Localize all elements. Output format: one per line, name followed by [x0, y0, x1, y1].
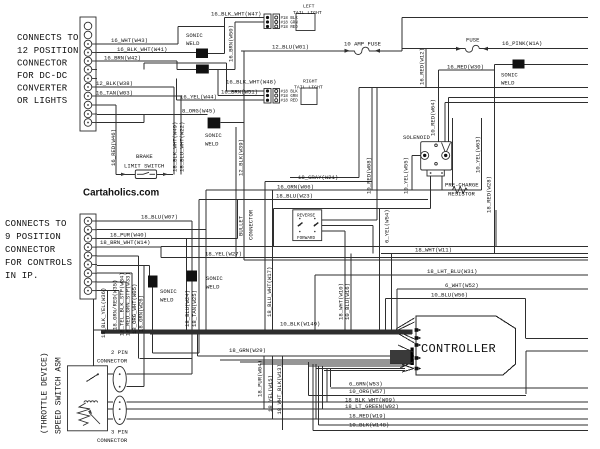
wire ctrl right drop: [525, 351, 527, 394]
wire m4: [260, 363, 414, 365]
svg-text:FORWARD: FORWARD: [297, 236, 315, 241]
svg-text:SONIC: SONIC: [206, 275, 223, 282]
wire W45: [97, 114, 208, 116]
wire brake left: [116, 173, 135, 175]
wire W51 riser: [217, 70, 219, 96]
svg-text:LIMIT SWITCH: LIMIT SWITCH: [124, 163, 164, 170]
forward-reverse switch: [293, 210, 322, 241]
wire W48 step: [143, 63, 145, 70]
svg-text:CONNECTOR: CONNECTOR: [248, 209, 255, 240]
wire W54 drop: [379, 209, 381, 331]
wire stub 496: [495, 210, 497, 247]
wire W07: [97, 220, 192, 222]
controller: [416, 316, 516, 375]
svg-text:CONVERTER: CONVERTER: [17, 84, 68, 94]
potentiometer: [78, 401, 101, 426]
svg-text:6_WHT(W52): 6_WHT(W52): [445, 282, 479, 289]
svg-text:16_BLK_WHT(W41): 16_BLK_WHT(W41): [117, 46, 167, 53]
svg-text:18_GRN(W29): 18_GRN(W29): [229, 347, 266, 354]
wire W31 drop: [314, 275, 316, 331]
svg-text:18_WHT_BLK(W13): 18_WHT_BLK(W13): [276, 364, 283, 414]
wire precharge right: [481, 118, 483, 190]
wire W30: [439, 69, 495, 71]
svg-text:16_GRN(W06): 16_GRN(W06): [277, 184, 314, 191]
wire W12 riser: [401, 18, 403, 51]
wire W52 corner: [396, 289, 398, 330]
svg-text:10_YEL(W63): 10_YEL(W63): [475, 136, 482, 173]
wire 273 drop: [273, 209, 275, 247]
pre-charge resistor: [452, 187, 467, 194]
wire pin8 stub: [97, 281, 126, 283]
svg-text:16_BLK_WHT(W47): 16_BLK_WHT(W47): [211, 11, 261, 18]
wire fuse1 left: [241, 50, 355, 52]
svg-text:TAIL LIGHT: TAIL LIGHT: [293, 10, 322, 16]
wire pot2: [88, 408, 113, 410]
svg-text:WELD: WELD: [186, 40, 200, 47]
wire weld2 out: [209, 69, 235, 71]
wire funnel a: [447, 98, 449, 143]
svg-text:CONNECTOR: CONNECTOR: [17, 59, 68, 69]
wire solenoid strip: [274, 208, 431, 210]
svg-text:10_BLK(W149): 10_BLK(W149): [280, 321, 320, 328]
svg-text:(THROTTLE DEVICE): (THROTTLE DEVICE): [41, 352, 50, 434]
wire W39 bus: [244, 259, 588, 261]
wire W46 drop: [115, 105, 117, 174]
wire m7: [324, 370, 405, 372]
svg-text:#18 RED: #18 RED: [281, 100, 299, 104]
solenoid: [421, 142, 452, 170]
wire bot b: [312, 364, 314, 431]
svg-text:18_BRN_WHT(W14): 18_BRN_WHT(W14): [100, 239, 150, 246]
svg-text:16_TAN(W03): 16_TAN(W03): [96, 90, 133, 97]
svg-text:CONNECTOR: CONNECTOR: [97, 358, 128, 365]
svg-text:18_GRAY(W21): 18_GRAY(W21): [298, 174, 338, 181]
2 pin connector oval: [113, 366, 126, 392]
svg-text:18_BLU_WHT(W22): 18_BLU_WHT(W22): [179, 122, 186, 172]
wire sw2 drop: [372, 225, 374, 253]
wire W11: [381, 252, 588, 254]
wire weld1 riser: [224, 18, 226, 54]
svg-text:3 PIN: 3 PIN: [111, 429, 128, 436]
wire 9p drop c: [125, 282, 127, 331]
wire fuse2 right W1A: [479, 48, 588, 50]
wire precharge left: [451, 118, 453, 186]
wire 2pin dot2: [126, 386, 144, 388]
svg-text:18_PUR(W04): 18_PUR(W04): [257, 360, 264, 397]
wire strip drop2: [441, 176, 443, 190]
wire bot f: [326, 368, 328, 402]
svg-text:#18 GRN: #18 GRN: [281, 95, 299, 99]
svg-text:18_BLK_WHT(W49): 18_BLK_WHT(W49): [172, 122, 179, 172]
wire solenoid B right: [448, 97, 588, 99]
wire W31: [315, 274, 588, 276]
wire weldB out1: [186, 238, 188, 331]
wire W21b: [290, 176, 359, 178]
wire W38: [97, 86, 174, 88]
wire weldB top: [191, 221, 193, 271]
wire W23: [199, 199, 428, 201]
svg-text:SPEED SWITCH ASM: SPEED SWITCH ASM: [55, 357, 64, 434]
wire W17 drop: [272, 190, 274, 331]
wire W03: [97, 95, 181, 97]
svg-text:6_YEL(W54): 6_YEL(W54): [384, 209, 391, 243]
wire band4: [150, 333, 412, 335]
wire weldB out2: [191, 282, 193, 375]
wire W42 step: [176, 61, 178, 70]
wire 9p drop a: [107, 291, 109, 331]
wire W52: [397, 288, 588, 290]
svg-text:SOLENOID: SOLENOID: [403, 134, 430, 141]
wire W13 drop: [282, 356, 284, 430]
wire solenoid B right2: [445, 101, 588, 103]
sonic weld 1: [196, 49, 208, 59]
wire fuse2 left: [402, 48, 466, 50]
wire m2: [220, 359, 414, 361]
svg-text:WELD: WELD: [206, 284, 220, 291]
wire W148: [313, 430, 588, 432]
wire solenoid coil left: [412, 154, 425, 156]
wire W56: [385, 298, 525, 300]
svg-text:18_RED(W28): 18_RED(W28): [486, 176, 493, 213]
svg-text:8_ORG(W45): 8_ORG(W45): [182, 108, 216, 115]
sonic weld 4: [513, 60, 525, 69]
svg-text:18_TAN(W25): 18_TAN(W25): [191, 290, 198, 327]
svg-text:WELD: WELD: [501, 80, 515, 87]
svg-text:16_WHT(W43): 16_WHT(W43): [111, 37, 148, 44]
wire W48 seg2: [227, 90, 265, 92]
connector J2 9-position: [80, 214, 97, 299]
wire W19: [126, 418, 588, 420]
wire 9p switch drop: [92, 299, 94, 374]
wire W12 top: [402, 17, 588, 19]
wire W42 seg1: [97, 60, 177, 62]
wire bus 246: [161, 246, 588, 248]
wire W52 mid drop: [390, 253, 392, 331]
svg-text:18_BLK_YEL(W36): 18_BLK_YEL(W36): [100, 288, 107, 338]
svg-text:FUSE: FUSE: [466, 37, 480, 44]
wire W53: [331, 387, 588, 389]
wire W22 drop: [180, 96, 182, 174]
wire ctrl right2: [526, 350, 588, 352]
wire bot e: [322, 366, 324, 409]
wire pin9 stub: [97, 290, 119, 292]
wire W56 left drop: [384, 299, 386, 335]
wire W12 mid: [359, 87, 588, 89]
svg-text:10_ORG(W57): 10_ORG(W57): [349, 388, 386, 395]
svg-text:10_BLU(W16): 10_BLU(W16): [344, 283, 351, 320]
svg-text:18_YEL(W27): 18_YEL(W27): [205, 251, 242, 258]
svg-text:CONNECTOR: CONNECTOR: [97, 437, 128, 444]
wire W51: [218, 95, 264, 97]
svg-text:CONNECTS TO: CONNECTS TO: [17, 33, 79, 43]
svg-text:IN IP.: IN IP.: [5, 271, 39, 281]
wire band core (merged harness): [101, 330, 412, 334]
wire brake right: [157, 173, 173, 175]
wire bus424: [319, 424, 589, 426]
wire W49 drop: [173, 87, 175, 174]
wire bot a: [308, 362, 310, 396]
wire m5: [308, 365, 405, 367]
svg-text:16_BRN(W42): 16_BRN(W42): [104, 55, 141, 62]
wire 351 drop: [350, 253, 352, 331]
svg-text:CONTROLLER: CONTROLLER: [421, 342, 496, 356]
right tail light connector: [264, 89, 280, 104]
wire W48 seg1: [144, 62, 227, 64]
wire weld3 out: [220, 122, 244, 124]
wire W29 riser: [196, 331, 198, 356]
svg-text:18_LT_GREEN(W02): 18_LT_GREEN(W02): [345, 403, 399, 410]
wire W43 seg2: [178, 26, 225, 28]
svg-text:18_WHT(W11): 18_WHT(W11): [415, 247, 452, 254]
svg-text:10_RED(W08): 10_RED(W08): [366, 157, 373, 194]
wire W40: [97, 229, 206, 231]
wire W12 drop: [425, 49, 427, 88]
wire fuse1 mid: [369, 50, 402, 52]
wire W42 seg2: [177, 69, 196, 71]
fuse F1 10 amp: [345, 47, 381, 54]
wire W47 to tail dot1: [225, 17, 265, 19]
wire band1: [94, 329, 412, 331]
wire W21: [265, 181, 372, 183]
svg-text:CONNECTOR: CONNECTOR: [5, 245, 56, 255]
wire bot c: [315, 364, 317, 419]
wire 265 drop: [264, 182, 266, 332]
svg-text:RIGHT: RIGHT: [303, 79, 318, 85]
wire weld4 left: [495, 63, 513, 65]
wire pin12: [97, 122, 144, 124]
3 pin connector oval: [113, 396, 126, 424]
wire W29: [197, 355, 414, 357]
wire W14: [97, 237, 238, 239]
wire m1: [139, 357, 191, 359]
wire pin12 step: [143, 115, 145, 123]
svg-text:10_BLK(W148): 10_BLK(W148): [349, 422, 389, 429]
wire bot d: [318, 366, 320, 425]
fuse F2: [456, 45, 488, 52]
svg-text:WELD: WELD: [160, 297, 174, 304]
wire weld3 drop: [235, 127, 237, 258]
wire W01 riser: [243, 51, 245, 260]
wire W56 drop: [525, 299, 527, 339]
wire W09: [126, 401, 588, 403]
svg-text:#18 BLK: #18 BLK: [281, 17, 299, 21]
svg-text:18_PUR(W40): 18_PUR(W40): [110, 232, 147, 239]
sonic weld B: [187, 271, 198, 282]
left tail light: [296, 14, 315, 31]
wire W28 drop: [494, 64, 496, 253]
svg-text:BULLET: BULLET: [238, 215, 245, 236]
wire weldA out: [152, 288, 154, 354]
wire W50 riser: [234, 22, 236, 70]
wire fwd-rev 1: [322, 219, 377, 221]
wire weldA in: [97, 265, 149, 267]
wire pot1: [96, 401, 113, 403]
svg-text:2 PIN: 2 PIN: [111, 349, 128, 356]
svg-text:16_RED(W12): 16_RED(W12): [419, 48, 426, 85]
svg-text:10_YEL(W55): 10_YEL(W55): [403, 157, 410, 194]
wire pot3: [88, 418, 113, 420]
wire strip drop1: [430, 176, 432, 209]
svg-text:#18 RED: #18 RED: [281, 26, 299, 30]
wire W44 riser: [175, 79, 177, 101]
svg-text:WELD: WELD: [205, 141, 219, 148]
wire W27: [161, 257, 588, 259]
svg-text:16_BRN(W50): 16_BRN(W50): [228, 25, 235, 62]
wire band3: [122, 332, 412, 334]
svg-text:10_RED(W64): 10_RED(W64): [430, 99, 437, 136]
wire ctrl right1: [526, 338, 588, 340]
wire W64 drop: [438, 70, 440, 142]
svg-text:16_PINK(W1A): 16_PINK(W1A): [502, 40, 542, 47]
svg-text:16_RED(W46): 16_RED(W46): [110, 129, 117, 166]
wire weld4 right: [525, 63, 589, 65]
svg-text:18_BLU_WHT(W17): 18_BLU_WHT(W17): [266, 267, 273, 317]
wire m6: [316, 367, 405, 369]
svg-text:18_GRN(W26): 18_GRN(W26): [138, 295, 145, 332]
wire W02: [126, 408, 588, 410]
svg-text:18_BLU(W23): 18_BLU(W23): [276, 193, 313, 200]
speed switch lever: [87, 373, 100, 381]
svg-text:12 POSITION: 12 POSITION: [17, 46, 79, 56]
svg-text:Cartaholics.com: Cartaholics.com: [83, 188, 160, 199]
svg-text:16_YEL(W44): 16_YEL(W44): [180, 94, 217, 101]
svg-text:16_BRN(W51): 16_BRN(W51): [221, 89, 258, 96]
svg-text:SONIC: SONIC: [205, 132, 222, 139]
left tail light connector: [264, 14, 280, 29]
svg-text:TAIL LIGHT: TAIL LIGHT: [294, 85, 323, 91]
wire pin5 stub: [97, 255, 138, 257]
wire W57: [309, 395, 526, 397]
svg-text:REVERSE: REVERSE: [297, 214, 315, 219]
svg-text:9 POSITION: 9 POSITION: [5, 232, 61, 242]
wire W46 top: [97, 104, 116, 106]
wire W23 drop: [376, 88, 378, 221]
wire W06 drop: [205, 190, 207, 331]
wire W08 drop: [371, 88, 373, 191]
wire band2: [108, 330, 412, 332]
wire pin4 stub: [97, 246, 161, 248]
sonic weld 3: [208, 118, 221, 129]
wire 9p drop d: [131, 273, 133, 331]
wire W44: [176, 99, 264, 101]
svg-text:18_BLU(W07): 18_BLU(W07): [141, 213, 178, 220]
wire m3: [240, 361, 414, 363]
svg-text:10_BLU(W56): 10_BLU(W56): [431, 292, 468, 299]
svg-text:18_LHT_BLU(W31): 18_LHT_BLU(W31): [427, 268, 477, 275]
svg-text:LEFT: LEFT: [303, 4, 315, 10]
wire 9p drop e: [137, 256, 139, 358]
svg-text:18_BLU(W24): 18_BLU(W24): [184, 290, 191, 327]
wire W04 drop: [263, 356, 265, 409]
controller wire bundle wedge: [390, 318, 415, 372]
wire W43 seg1: [97, 43, 178, 45]
wire W48 riser: [226, 63, 228, 91]
wire W353: [153, 352, 200, 354]
throttle speed switch box: [68, 366, 108, 431]
brake limit switch: [121, 170, 168, 179]
wire W21 riser: [358, 88, 360, 178]
svg-text:CONNECTS TO: CONNECTS TO: [5, 219, 67, 229]
sonic weld A: [148, 276, 158, 288]
wire sw3 drop: [344, 231, 346, 331]
svg-text:OR LIGHTS: OR LIGHTS: [17, 96, 67, 106]
svg-text:#18 GRN: #18 GRN: [281, 22, 299, 26]
wire W55 drop: [411, 155, 413, 190]
svg-text:RESISTOR: RESISTOR: [448, 191, 475, 198]
solenoid 2-pin strip: [427, 170, 444, 176]
svg-text:SONIC: SONIC: [501, 72, 518, 79]
wire W06: [206, 189, 482, 191]
wire W15 drop: [272, 356, 274, 419]
wire W41: [97, 52, 196, 54]
wire 9p drop b: [118, 291, 120, 331]
svg-text:10 AMP FUSE: 10 AMP FUSE: [344, 41, 382, 48]
wire weld1 out: [208, 53, 225, 55]
connector J1 12-position: [80, 17, 97, 131]
wire W23 left drop: [198, 200, 200, 354]
wire W50 to tail dot2: [235, 21, 264, 23]
wire W14 drop: [236, 200, 238, 239]
wire 9p drop f: [143, 266, 145, 387]
right tail light: [301, 88, 317, 105]
svg-text:12_BLK(W38): 12_BLK(W38): [96, 80, 133, 87]
wire funnel b: [444, 102, 446, 142]
svg-text:SONIC: SONIC: [160, 288, 177, 295]
wire W43 riser: [177, 27, 179, 45]
sonic weld 2: [196, 65, 209, 74]
svg-text:BRAKE: BRAKE: [136, 153, 153, 160]
wire fwd-rev 2: [322, 224, 373, 226]
wire pin7 stub: [97, 272, 132, 274]
wire 2pin dot1: [126, 373, 192, 375]
controller terminals: [415, 328, 422, 370]
wire bot g: [330, 369, 332, 387]
wire switch stub: [98, 373, 113, 375]
svg-text:6_GRN(W53): 6_GRN(W53): [349, 381, 383, 388]
wire fwd-rev 3: [322, 230, 345, 232]
svg-text:18_YEL(W15): 18_YEL(W15): [267, 375, 274, 412]
svg-text:SONIC: SONIC: [186, 32, 203, 39]
svg-text:12_BLU(W01): 12_BLU(W01): [272, 44, 309, 51]
svg-text:18_RED(W19): 18_RED(W19): [349, 413, 386, 420]
svg-text:FOR CONTROLS: FOR CONTROLS: [5, 258, 72, 268]
svg-text:12_BLK(W39): 12_BLK(W39): [238, 139, 245, 176]
svg-text:18_GRN/RED(W35): 18_GRN/RED(W35): [111, 280, 118, 330]
wire weldA in riser: [148, 266, 150, 276]
wire W27 riser: [160, 247, 162, 257]
svg-text:#18 BLK: #18 BLK: [281, 91, 299, 95]
svg-text:PRE-CHARGE: PRE-CHARGE: [445, 182, 479, 189]
svg-text:16_BLK_WHT(W48): 16_BLK_WHT(W48): [226, 79, 276, 86]
svg-text:16_RED(W30): 16_RED(W30): [447, 64, 484, 71]
svg-text:FOR DC-DC: FOR DC-DC: [17, 71, 68, 81]
